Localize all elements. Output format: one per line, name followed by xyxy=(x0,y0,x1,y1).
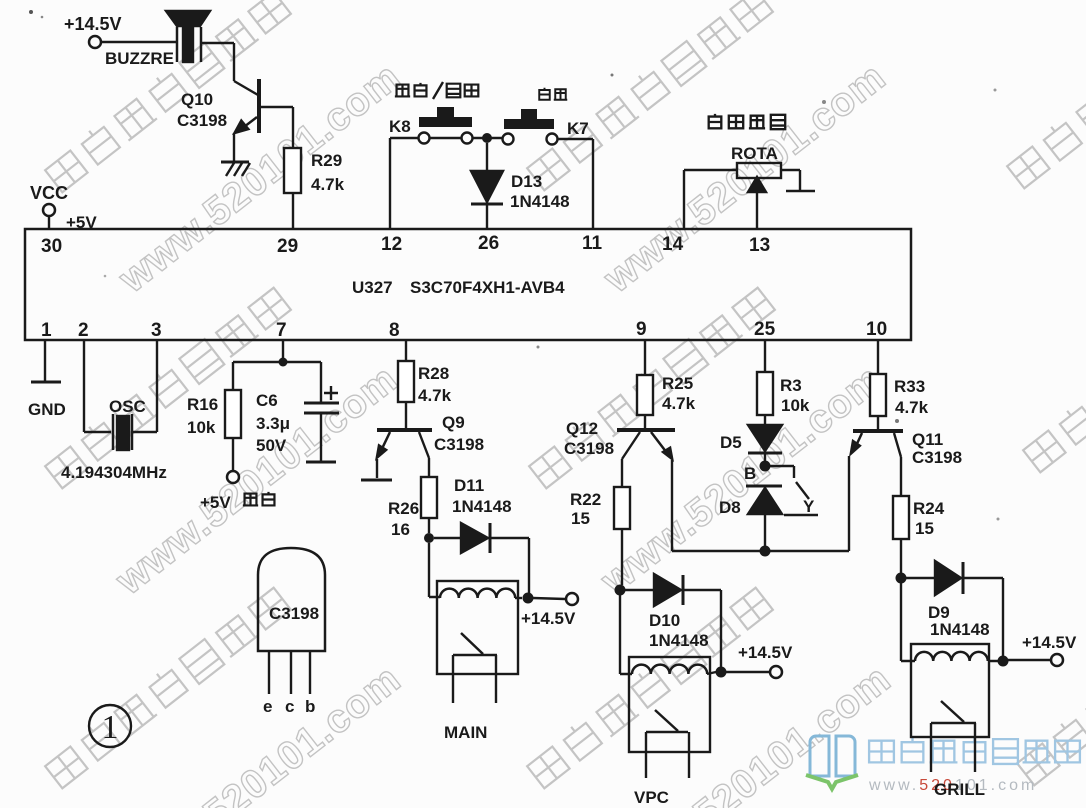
svg-text:C3198: C3198 xyxy=(177,111,227,130)
svg-text:B: B xyxy=(744,464,756,483)
svg-text:1N4148: 1N4148 xyxy=(510,192,570,211)
svg-text:+5V: +5V xyxy=(66,213,97,232)
svg-text:c: c xyxy=(285,697,294,716)
svg-text:Y: Y xyxy=(803,497,815,516)
svg-text:15: 15 xyxy=(915,519,934,538)
svg-text:15: 15 xyxy=(571,509,590,528)
svg-text:+14.5V: +14.5V xyxy=(521,609,576,628)
svg-text:R29: R29 xyxy=(311,151,342,170)
svg-text:Q9: Q9 xyxy=(442,413,465,432)
svg-text:U327: U327 xyxy=(352,278,393,297)
svg-text:3.3μ: 3.3μ xyxy=(256,414,290,433)
svg-text:1: 1 xyxy=(102,709,119,746)
svg-text:+5V: +5V xyxy=(200,493,231,512)
svg-text:1N4148: 1N4148 xyxy=(930,620,990,639)
svg-text:25: 25 xyxy=(754,319,776,340)
svg-text:C3198: C3198 xyxy=(564,439,614,458)
svg-text:R33: R33 xyxy=(894,377,925,396)
svg-text:+14.5V: +14.5V xyxy=(1022,633,1077,652)
svg-text:b: b xyxy=(305,697,315,716)
svg-text:10k: 10k xyxy=(187,418,216,437)
svg-text:R26: R26 xyxy=(388,499,419,518)
svg-text:1N4148: 1N4148 xyxy=(649,631,709,650)
svg-text:D10: D10 xyxy=(649,611,680,630)
svg-text:C3198: C3198 xyxy=(434,435,484,454)
svg-text:R22: R22 xyxy=(570,490,601,509)
svg-text:C3198: C3198 xyxy=(269,604,319,623)
svg-text:D11: D11 xyxy=(454,476,484,495)
svg-text:4.7k: 4.7k xyxy=(895,398,929,417)
svg-text:30: 30 xyxy=(41,236,62,257)
svg-text:10k: 10k xyxy=(781,396,810,415)
svg-text:7: 7 xyxy=(276,320,287,341)
svg-text:D5: D5 xyxy=(720,433,742,452)
svg-text:4.7k: 4.7k xyxy=(311,175,345,194)
svg-text:OSC: OSC xyxy=(109,397,146,416)
svg-text:K7: K7 xyxy=(567,119,589,138)
svg-text:4.7k: 4.7k xyxy=(662,394,696,413)
svg-text:R24: R24 xyxy=(913,499,945,518)
svg-text:26: 26 xyxy=(478,233,499,254)
svg-text:R25: R25 xyxy=(662,374,693,393)
svg-text:R28: R28 xyxy=(418,364,449,383)
svg-text:10: 10 xyxy=(866,319,887,340)
svg-text:11: 11 xyxy=(582,233,603,254)
svg-text:R3: R3 xyxy=(780,376,802,395)
svg-text:4.7k: 4.7k xyxy=(418,386,452,405)
svg-text:14: 14 xyxy=(662,234,684,255)
svg-text:+14.5V: +14.5V xyxy=(738,643,793,662)
svg-text:12: 12 xyxy=(381,234,402,255)
svg-text:3: 3 xyxy=(151,320,162,341)
svg-text:VPC: VPC xyxy=(634,788,669,807)
svg-text:S3C70F4XH1-AVB4: S3C70F4XH1-AVB4 xyxy=(410,278,565,297)
svg-text:C6: C6 xyxy=(256,391,278,410)
svg-text:VCC: VCC xyxy=(30,183,68,203)
svg-text:2: 2 xyxy=(78,320,89,341)
svg-text:ROTA: ROTA xyxy=(731,144,778,163)
svg-text:Q11: Q11 xyxy=(912,430,943,449)
svg-text:www.520101.com: www.520101.com xyxy=(110,657,409,808)
svg-text:K8: K8 xyxy=(389,117,411,136)
svg-text:1N4148: 1N4148 xyxy=(452,497,512,516)
svg-text:MAIN: MAIN xyxy=(444,723,487,742)
svg-text:C3198: C3198 xyxy=(912,448,962,467)
svg-text:R16: R16 xyxy=(187,395,218,414)
svg-text:GND: GND xyxy=(28,400,66,419)
svg-text:+14.5V: +14.5V xyxy=(64,14,122,34)
svg-text:GRILL: GRILL xyxy=(934,780,985,799)
svg-text:16: 16 xyxy=(391,520,410,539)
svg-text:D8: D8 xyxy=(719,498,741,517)
svg-text:D13: D13 xyxy=(511,172,542,191)
svg-text:8: 8 xyxy=(389,320,400,341)
svg-text:Q10: Q10 xyxy=(181,90,213,109)
svg-text:1: 1 xyxy=(41,320,52,341)
svg-text:29: 29 xyxy=(277,236,298,257)
svg-text:BUZZRE: BUZZRE xyxy=(105,49,174,68)
svg-text:4.194304MHz: 4.194304MHz xyxy=(61,463,167,482)
svg-text:Q12: Q12 xyxy=(566,419,598,438)
svg-text:13: 13 xyxy=(749,235,770,256)
svg-text:e: e xyxy=(263,697,272,716)
svg-text:50V: 50V xyxy=(256,436,287,455)
svg-text:9: 9 xyxy=(636,319,647,340)
